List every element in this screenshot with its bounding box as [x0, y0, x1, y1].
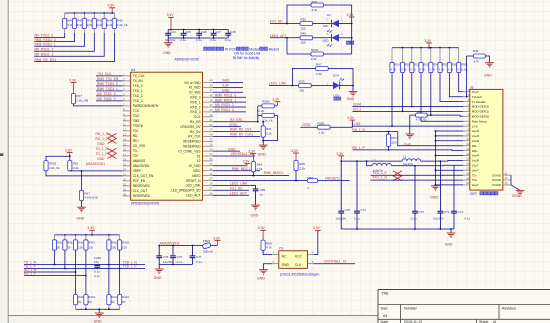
svg-text:SCL1: SCL1: [353, 108, 361, 112]
net label RMII_RXD1_1 (U4 pin45): [215, 98, 236, 102]
resistor R57 2.2k_NM: [71, 94, 88, 104]
capacitor C73 10u/10v: [433, 161, 450, 229]
svg-text:R421: R421: [88, 295, 95, 299]
net label TXD_1_N (network): [123, 261, 138, 265]
svg-text:10: 10: [123, 117, 126, 121]
power 3.3V (R65): [291, 149, 299, 161]
net label RD_1_P (SFP side): [352, 146, 365, 150]
power 3.3V (R280): [272, 98, 280, 106]
resistor R415 50: [63, 235, 75, 250]
svg-text:17: 17: [466, 167, 469, 171]
sheet left margin: [0, 0, 8, 323]
net label MII_RXD1_2: [35, 48, 54, 52]
svg-text:24: 24: [123, 187, 126, 191]
svg-text:VccR: VccR: [472, 159, 479, 163]
svg-text:4.7k: 4.7k: [473, 60, 479, 64]
svg-text:15: 15: [123, 142, 126, 146]
wire 3.3V rail (network): [55, 234, 120, 236]
net label GND (U4 pin15): [97, 142, 105, 146]
resistor R49 4.7k: [467, 49, 486, 63]
net label RMII_MDC1 (U4 pin31): [232, 167, 250, 171]
svg-text:MII_RXD1_3: MII_RXD1_3: [215, 108, 234, 112]
svg-text:R49: R49: [473, 49, 479, 53]
no-ERC cross TXD_1_N: [393, 176, 402, 181]
wire 3.3V to R505/R63 tops: [46, 155, 71, 160]
svg-text:1.5k: 1.5k: [257, 167, 263, 171]
wire R53 to J3 Rate Select: [421, 73, 463, 122]
net label GND (U4 pin49): [222, 79, 230, 83]
U4 designator: [131, 68, 136, 72]
svg-text:R56: R56: [299, 79, 305, 83]
svg-text:LED_LINK: LED_LINK: [186, 184, 202, 188]
power 3.3V (R281): [347, 116, 355, 120]
wire VccT branch: [367, 161, 372, 166]
svg-text:Y3: Y3: [279, 247, 283, 251]
net label FRESET1: [325, 177, 340, 181]
svg-text:21: 21: [123, 172, 126, 176]
svg-text:4.7k: 4.7k: [266, 246, 272, 250]
Y3 pin names: [282, 255, 303, 267]
svg-text:34: 34: [210, 152, 213, 156]
svg-text:2.2k_NL: 2.2k_NL: [117, 23, 129, 27]
wire RESET_N (U4 pin29): [213, 180, 308, 182]
svg-text:RMII_RX_DV1: RMII_RX_DV1: [230, 128, 252, 132]
svg-text:RMII_RXD1_1: RMII_RXD1_1: [35, 42, 56, 46]
wire R417 through RD_1_P row to R421: [85, 250, 87, 294]
wire FX1_SD row: [270, 23, 300, 25]
LED D2 yellow: [323, 32, 354, 47]
capacitor C76 0.1u: [170, 246, 183, 265]
resistor R414 50: [52, 235, 64, 250]
wire U4 pin5: [96, 95, 123, 97]
title block text A4: [383, 314, 387, 318]
comment CJK PHYCR mode note: [204, 47, 279, 51]
net label RMII_RXD1_0 (U4 pin46): [215, 93, 236, 97]
wire U4 pin40 CRS: [213, 126, 241, 128]
svg-text:4.7k: 4.7k: [391, 68, 397, 72]
net label TD_1_N: [24, 261, 37, 265]
svg-text:4.7k_NL: 4.7k_NL: [416, 118, 428, 122]
svg-text:TXD_1_P: TXD_1_P: [123, 265, 137, 269]
net label CRYSTAL1_X1 (Y3): [324, 260, 347, 264]
wire R40 to J3 MOD-DEF(0): [427, 115, 463, 116]
wire R42 to net label row: [34, 33, 84, 46]
svg-text:FX1_SD: FX1_SD: [270, 20, 283, 24]
svg-text:GND: GND: [250, 213, 258, 217]
wire U4 pin34: [213, 155, 255, 157]
wire U4 pin47: [213, 91, 243, 93]
wire D2 anode to rail: [339, 37, 352, 39]
svg-text:L1: L1: [403, 154, 407, 158]
svg-text:3.3V: 3.3V: [336, 152, 344, 156]
title block text Revision: [502, 307, 516, 311]
svg-text:MOD-DEF(0): MOD-DEF(0): [472, 115, 489, 119]
LED D2A designator: [333, 74, 339, 78]
svg-text:23: 23: [505, 181, 508, 185]
svg-text:TXD_0: TXD_0: [133, 84, 143, 88]
svg-text:VeeT: VeeT: [472, 90, 479, 94]
resistor R68 4.7k: [261, 240, 272, 250]
wire R40 to net label row: [34, 33, 64, 38]
svg-text:RESERVED: RESERVED: [133, 184, 151, 188]
svg-text:RESERVED: RESERVED: [133, 194, 151, 198]
svg-text:R279: R279: [311, 48, 319, 52]
svg-text:RXD_1: RXD_1: [190, 100, 200, 104]
wire U4 pin1: [96, 75, 123, 77]
svg-text:27: 27: [210, 187, 213, 191]
resistor R46 165: [300, 32, 313, 45]
title block text date value: [404, 320, 422, 323]
svg-text:SDA1: SDA1: [353, 103, 362, 107]
svg-text:IO_VDD: IO_VDD: [189, 86, 201, 90]
wire RX_ER1 (U4 pin41): [213, 121, 264, 123]
svg-text:33: 33: [210, 157, 213, 161]
svg-text:NC or GND: NC or GND: [184, 81, 201, 85]
svg-text:MDIO: MDIO: [192, 174, 201, 178]
wire TD_1_N row: [24, 264, 145, 266]
ground (filter): [154, 264, 164, 279]
wire ANA33VDD1 rail: [158, 245, 203, 247]
wire RD_1_N to J3 RD-: [353, 131, 464, 146]
svg-text:L2: L2: [373, 158, 377, 162]
wire DGND bus: [511, 175, 520, 190]
svg-text:2.2k: 2.2k: [266, 131, 272, 135]
svg-text:C75: C75: [163, 255, 169, 259]
resistor R63 2.2k: [68, 161, 79, 171]
wire U4 pin46: [213, 96, 246, 98]
svg-text:GND: GND: [97, 157, 105, 161]
svg-text:4.87k(1%): 4.87k(1%): [84, 196, 98, 200]
svg-text:SFP: SFP: [470, 192, 477, 196]
svg-text:RESERVED: RESERVED: [183, 140, 201, 144]
power 3.3V (SFP filter): [336, 152, 344, 162]
net label GND (U4 pin35): [228, 147, 236, 151]
wire RD_1_P row: [24, 275, 86, 277]
svg-text:10u/10v: 10u/10v: [165, 38, 176, 42]
svg-text:10: 10: [466, 132, 469, 136]
ground (Y3): [257, 270, 268, 281]
svg-text:GND: GND: [258, 152, 266, 156]
svg-text:RESERVED: RESERVED: [183, 145, 201, 149]
svg-text:RMII_RXD1_0: RMII_RXD1_0: [215, 93, 236, 97]
wire D1 anode to rail: [339, 23, 352, 25]
svg-text:ANA33VDD1: ANA33VDD1: [86, 162, 105, 166]
svg-text:3.3V: 3.3V: [346, 13, 354, 17]
svg-text:RMII_RXD1_0: RMII_RXD1_0: [35, 38, 56, 42]
resistor R423 50: [118, 295, 130, 310]
wire U4 pin45: [213, 101, 246, 103]
svg-text:VCC: VCC: [295, 255, 303, 259]
svg-text:3.3V: 3.3V: [222, 84, 230, 88]
wire R46 to D2: [313, 37, 332, 39]
svg-text:39: 39: [210, 128, 213, 132]
wire R49 left to TxFault: [466, 56, 468, 97]
svg-text:17: 17: [123, 152, 126, 156]
svg-text:MII_TXD1_2: MII_TXD1_2: [97, 92, 116, 96]
svg-text:MII_RXD1_2: MII_RXD1_2: [35, 48, 54, 52]
LED D1: [323, 13, 344, 32]
capacitor C75 10u/10v: [156, 246, 174, 265]
resistor R416 130: [73, 235, 85, 250]
svg-text:2.2k: 2.2k: [319, 131, 325, 135]
svg-text:46: 46: [210, 93, 213, 97]
svg-text:TMS: TMS: [133, 119, 140, 123]
svg-text:GND: GND: [97, 142, 105, 146]
svg-text:2.2k: 2.2k: [73, 166, 79, 170]
net label RMII_RX_DV1 (U4 pin39): [230, 128, 252, 132]
wire U4 pin3: [96, 85, 123, 87]
svg-text:RMII_RXD1_1: RMII_RXD1_1: [215, 98, 236, 102]
svg-text:PCF_EN: PCF_EN: [133, 179, 146, 183]
svg-text:Revision: Revision: [502, 307, 516, 311]
svg-text:RX_ER1: RX_ER1: [230, 118, 243, 122]
wire VccR rail: [341, 160, 402, 162]
svg-text:RXD_0: RXD_0: [190, 96, 200, 100]
svg-text:47p: 47p: [94, 260, 99, 264]
svg-text:U4: U4: [131, 68, 136, 72]
svg-text:FRESET1: FRESET1: [325, 177, 340, 181]
svg-text:Size: Size: [381, 307, 388, 311]
net label GND (U4 pin18): [97, 157, 105, 161]
svg-text:500mA: 500mA: [203, 250, 214, 254]
svg-text:CD_VSS: CD_VSS: [133, 144, 146, 148]
svg-text:RX_ER: RX_ER: [190, 120, 201, 124]
resistor R52 4.7k: [410, 48, 420, 73]
svg-text:TXD_1_P: TXD_1_P: [372, 171, 387, 175]
net label SDA1: [353, 103, 362, 107]
ground DGND: [512, 190, 524, 198]
svg-text:TD_1_P: TD_1_P: [96, 152, 109, 156]
svg-text:C71: C71: [360, 208, 366, 212]
net label MII_RXD1_3: [35, 52, 54, 56]
svg-text:MDC: MDC: [193, 169, 201, 173]
svg-text:0.1u: 0.1u: [94, 274, 100, 278]
svg-text:165: 165: [299, 88, 304, 92]
wire network bottom rail: [76, 308, 120, 310]
svg-text:13: 13: [466, 147, 469, 151]
net label RMII_RXD1_1: [35, 42, 56, 46]
wire R45 to net label row: [34, 33, 114, 62]
svg-text:16: 16: [466, 162, 469, 166]
resistor R55 4.7k: [438, 48, 448, 73]
net label MII_TXD1_2: [97, 92, 116, 96]
svg-text:4.7k: 4.7k: [410, 68, 416, 72]
net label RD_1_N (network): [24, 268, 37, 272]
wire R50 to LOS1: [391, 73, 393, 127]
resistor R40 2.2k_NL: [63, 13, 79, 33]
svg-text:165: 165: [301, 26, 306, 30]
net label TD_1_N (U4 pin16): [96, 147, 109, 151]
ground (MOD-DEF0 strap): [403, 115, 414, 147]
wire R47 right leg: [328, 69, 354, 87]
capacitor C71 0.1u: [354, 161, 366, 229]
svg-text:25: 25: [123, 192, 126, 196]
title block text Number: [404, 307, 418, 311]
svg-text:J3: J3: [470, 85, 474, 89]
svg-text:41: 41: [210, 118, 213, 122]
net label CRS1 (pin40): [229, 123, 238, 127]
wire 3.3V rail (pull-up bank): [392, 47, 459, 49]
svg-text:LED1_LINK: LED1_LINK: [230, 182, 248, 186]
resistor R419 130: [118, 235, 130, 250]
wire LED1_LINK row: [269, 85, 299, 87]
net label MII_RXD1_2 (U4 pin44): [215, 103, 234, 107]
svg-text:130: 130: [111, 245, 116, 249]
svg-text:GND: GND: [257, 277, 265, 281]
inductor L1 1uH/1A: [402, 154, 421, 166]
resistor R47 2.2k: [292, 62, 328, 85]
J3 designator: [470, 85, 474, 89]
resistor R421 50: [84, 295, 96, 310]
svg-text:TD-: TD-: [133, 149, 138, 153]
svg-text:CRS/CRS_DV: CRS/CRS_DV: [180, 125, 201, 129]
U4 part number DP83620SQ/NOPB: [131, 202, 161, 206]
svg-text:GND: GND: [222, 89, 230, 93]
no-ERC cross pin13: [108, 133, 117, 138]
power 3.3V (U4 pin32): [243, 160, 251, 166]
wire U4 pin32 IO_VDD: [213, 165, 247, 167]
svg-text:R59: R59: [461, 63, 467, 67]
svg-text:12: 12: [123, 127, 126, 131]
svg-text:GND: GND: [222, 79, 230, 83]
wire 3.3V rail top-left: [65, 12, 115, 14]
wire U4 pin49: [213, 82, 243, 84]
wire D3 cathode to GND: [340, 86, 353, 92]
wire R41 to net label row: [34, 33, 74, 42]
svg-text:40: 40: [210, 123, 213, 127]
svg-text:GND: GND: [154, 276, 162, 280]
net label RMII_TXD1_1: [97, 87, 118, 91]
IC U4 body (PHY DP83620SQ/NOPB): [131, 72, 203, 200]
wire RD_1_N row: [24, 271, 76, 273]
wire LED blockA right rail: [351, 5, 353, 54]
svg-text:RD+: RD+: [472, 149, 478, 153]
svg-text:4.7k: 4.7k: [448, 68, 454, 72]
wire LOS1: [353, 125, 464, 127]
net label CRYSTAL1_X1 (U4 pin34): [231, 152, 254, 156]
svg-text:18: 18: [466, 171, 469, 175]
svg-text:130: 130: [122, 245, 127, 249]
svg-text:C44: C44: [170, 30, 176, 34]
power 3.3V (network): [87, 226, 95, 235]
net label RMII_TXD1_0: [97, 82, 118, 86]
svg-text:4.7k: 4.7k: [401, 68, 407, 72]
resistor R279 2.2k: [287, 48, 352, 61]
svg-text:MOD-DEF(2): MOD-DEF(2): [472, 105, 489, 109]
sheet zone tick: [0, 153, 3, 156]
ground (R61): [258, 141, 268, 157]
resistor R40 4.7k_NL: [410, 110, 427, 122]
capacitor C44 10u/10v: [165, 30, 176, 42]
resistor R281 2.2k: [318, 121, 331, 134]
no-ERC cross pin17: [108, 153, 117, 158]
wire U4 pin31: [213, 170, 260, 172]
svg-text:RD-: RD-: [472, 144, 477, 148]
resistor R58 4.7k: [447, 48, 457, 73]
no-ERC cross pin14: [108, 138, 117, 143]
svg-text:C47: C47: [215, 30, 221, 34]
svg-text:RMII_RX_CLK1: RMII_RX_CLK1: [230, 133, 254, 137]
svg-text:Tx Disable: Tx Disable: [472, 100, 486, 104]
resistor R41 2.2k_NL: [72, 13, 88, 33]
svg-text:37: 37: [210, 138, 213, 142]
resistor R53 4.7k: [419, 48, 429, 73]
svg-text:RMII_MDIO1: RMII_MDIO1: [264, 171, 283, 175]
comment ON for Good Link: [234, 52, 261, 56]
svg-text:GND: GND: [94, 319, 102, 323]
net label MII_TXD1_3: [35, 34, 54, 38]
svg-text:2.2k_NL: 2.2k_NL: [262, 118, 274, 122]
svg-text:R39: R39: [301, 17, 307, 21]
wire LED blockA left rail upper: [286, 5, 311, 24]
svg-text:50: 50: [111, 300, 115, 304]
svg-text:RD_1_P: RD_1_P: [352, 146, 365, 150]
svg-text:RXD_3: RXD_3: [190, 110, 200, 114]
capacitor C74 0.1u: [451, 165, 470, 229]
svg-text:ANA33VDD: ANA33VDD: [133, 164, 150, 168]
svg-text:165: 165: [301, 41, 306, 45]
svg-text:R46: R46: [301, 32, 307, 36]
net label FX1_SD (LED blockA): [270, 20, 283, 24]
svg-text:3.3V: 3.3V: [69, 78, 77, 82]
net label TD_1_P (U4 pin17): [96, 152, 109, 156]
svg-text:C70: C70: [345, 208, 351, 212]
svg-text:3.3V: 3.3V: [424, 39, 432, 43]
svg-text:0.1u: 0.1u: [464, 217, 470, 221]
wire Y3 CLK out: [314, 263, 356, 265]
svg-text:RD_1_N: RD_1_N: [96, 132, 109, 136]
net label LOS1: [352, 122, 361, 126]
svg-text:DGND: DGND: [492, 183, 501, 187]
svg-text:ANA33VDD1: ANA33VDD1: [160, 241, 180, 245]
resistor R62 100: [387, 132, 398, 151]
comment BLINK for Activity: [233, 56, 259, 60]
svg-text:ON for Good Link: ON for Good Link: [234, 52, 261, 56]
svg-text:RMII_TX1_EN: RMII_TX1_EN: [97, 77, 119, 81]
svg-text:LED: LED: [323, 38, 330, 42]
svg-text:20: 20: [123, 167, 126, 171]
svg-text:MII_RXD1_3: MII_RXD1_3: [35, 52, 54, 56]
LED D3 arrows: [339, 78, 344, 81]
svg-text:23: 23: [123, 182, 126, 186]
svg-text:2.2k_NL: 2.2k_NL: [49, 166, 61, 170]
ground (R49): [484, 63, 494, 78]
svg-text:28: 28: [210, 182, 213, 186]
net label RMII_RX_DV1: [35, 58, 57, 62]
wire TD_1_P row: [24, 268, 145, 270]
wire LED1_ACT row: [270, 37, 300, 39]
svg-text:2.2k_NM: 2.2k_NM: [76, 98, 89, 102]
wire U4 pin43: [213, 111, 246, 113]
resistor R505 2.2k_NL: [44, 161, 61, 171]
capacitor C45 0.1u: [180, 30, 191, 42]
svg-text:TX_CLK: TX_CLK: [133, 74, 146, 78]
net label TX1_CLK: [97, 72, 112, 76]
net label RD_1_N (SFP side): [352, 128, 365, 132]
svg-text:MOD-DEF(1): MOD-DEF(1): [472, 110, 489, 114]
svg-text:COL: COL: [194, 115, 201, 119]
wire R58 to J3 TxFault: [449, 73, 467, 98]
wire R418 through TD_1_N row to R422: [108, 250, 110, 294]
wire R281 to 3.3V: [330, 120, 352, 127]
svg-text:R66: R66: [308, 176, 314, 180]
J3 left pins 1-20: [463, 88, 489, 187]
svg-text:43: 43: [210, 108, 213, 112]
wire RX_ER strap left rail: [257, 106, 259, 122]
power 3.3V (R64): [248, 150, 256, 162]
svg-text:2.2k: 2.2k: [316, 72, 322, 76]
svg-text:2.2k: 2.2k: [312, 8, 318, 12]
